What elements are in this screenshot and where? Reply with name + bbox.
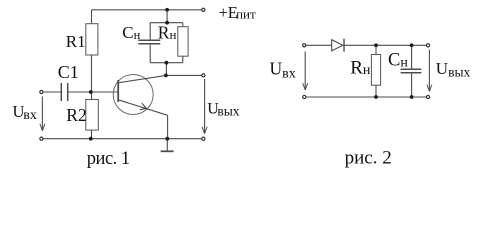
wire: Cn top lead (circuit 2): [411, 45, 413, 68]
transistor Q1 emitter arrowhead: [140, 103, 147, 110]
arrow Uvx (circuit 1): [41, 97, 43, 130]
terminal: output top (circuit 1): [202, 74, 205, 77]
terminal: input bottom (circuit 2): [303, 95, 306, 98]
svg-text:R2: R2: [66, 105, 86, 125]
node: Cn bottom junction (circuit 2): [410, 95, 414, 99]
wire: R2 top lead: [91, 92, 93, 100]
transistor Q1 body circle: [113, 75, 153, 115]
wire: diode to output (circuit 2 top rail): [344, 44, 426, 46]
diode VD1 cathode bar: [343, 39, 345, 52]
svg-text:рис. 2: рис. 2: [345, 147, 392, 168]
svg-text:R1: R1: [66, 32, 86, 51]
node: Cn top junction (circuit 2): [410, 43, 414, 47]
capacitor C1: [61, 83, 67, 101]
terminal: output top (circuit 2): [426, 44, 429, 47]
transistor Q1 collector line: [118, 75, 166, 82]
wire: bottom rail (circuit 2): [306, 96, 426, 98]
arrow Uvx (circuit 2): [304, 52, 306, 89]
wire: Rn top lead (circuit 1): [182, 23, 184, 27]
wire: network bottom to collector node: [165, 63, 167, 76]
wire: C1 to base: [68, 91, 118, 93]
arrow Uvyx (circuit 1): [204, 79, 206, 133]
node: emitter bottom junction: [165, 137, 169, 141]
wire: input to C1: [43, 91, 61, 93]
svg-text:Uвых: Uвых: [207, 100, 240, 118]
wire: Rn bottom lead (circuit 1): [182, 56, 184, 63]
wire: Rn top lead (circuit 2): [375, 45, 377, 54]
wire: R1 top lead: [91, 10, 93, 24]
capacitor Cn (circuit 1): [138, 40, 160, 44]
node: top rail junction (circuit 1): [165, 8, 169, 12]
node: Rn bottom junction (circuit 2): [374, 95, 378, 99]
wire: Cn bottom lead (circuit 1): [149, 45, 151, 63]
node: network bottom junction: [165, 61, 169, 65]
diode VD1 triangle: [332, 40, 343, 51]
wire: emitter down to bottom rail: [167, 115, 169, 138]
wire: collector node to output terminal: [166, 74, 202, 76]
node: R2 bottom junction: [89, 137, 93, 141]
resistor Rn (circuit 2): [371, 55, 380, 86]
resistor R1: [86, 24, 98, 55]
arrow Uvyx (circuit 2): [428, 50, 430, 91]
wire: bottom rail (circuit 1): [43, 138, 201, 140]
wire: input to diode (circuit 2): [306, 44, 332, 46]
wire: CnRn network bottom rail: [150, 62, 183, 64]
wire: Cn bottom lead (circuit 2): [411, 74, 413, 97]
wire: top supply rail (circuit 1): [92, 9, 202, 11]
wire: Cn top lead (circuit 1): [149, 23, 151, 40]
svg-text:рис. 1: рис. 1: [87, 149, 130, 169]
resistor Rn (circuit 1): [178, 27, 188, 57]
wire: Rn bottom lead (circuit 2): [375, 85, 377, 97]
capacitor Cn (circuit 2): [401, 69, 422, 73]
wire: CnRn network top rail: [150, 22, 183, 24]
svg-text:C1: C1: [58, 62, 79, 82]
node: Rn top junction (circuit 2): [374, 43, 378, 47]
svg-text:+Eпит: +Eпит: [219, 3, 257, 22]
terminal: output bottom (circuit 1): [202, 137, 205, 140]
ground bar: [161, 150, 174, 152]
terminal: +E supply (circuit 1): [202, 8, 205, 11]
node: collector junction: [164, 74, 168, 78]
terminal: output bottom (circuit 2): [426, 95, 429, 98]
resistor R2: [86, 100, 99, 131]
terminal: input top (circuit 2): [303, 44, 306, 47]
terminal: input top (circuit 1): [40, 90, 43, 93]
node: base junction: [89, 90, 93, 94]
node: network top junction: [165, 21, 169, 25]
wire: R1 bottom lead to base node: [91, 55, 93, 92]
ground stub: [166, 139, 168, 151]
transistor Q1 emitter line: [118, 100, 167, 116]
terminal: input bottom (circuit 1): [40, 137, 43, 140]
transistor Q1 base bar: [117, 80, 119, 102]
wire: R2 bottom lead: [91, 130, 93, 139]
wire: top rail down to CnRn network: [166, 10, 168, 23]
